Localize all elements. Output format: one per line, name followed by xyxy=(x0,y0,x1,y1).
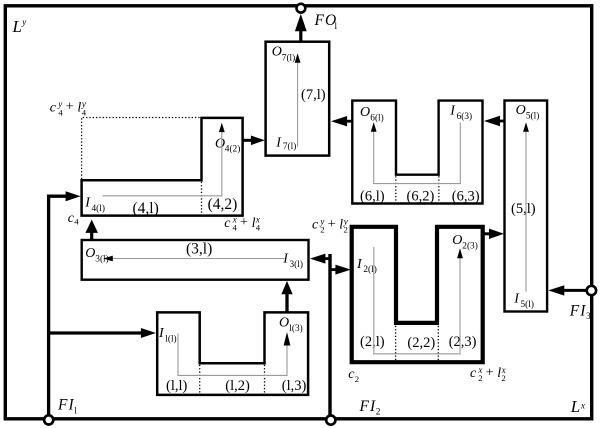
wire gray net 7 xyxy=(297,62,299,147)
arrowhead net 5 xyxy=(523,122,529,132)
svg-text:(6,3): (6,3) xyxy=(452,188,480,204)
svg-text:2: 2 xyxy=(478,373,482,383)
box (3,1) xyxy=(82,240,309,280)
label I1(1) xyxy=(158,326,177,344)
svg-text:4: 4 xyxy=(74,217,79,227)
label FO1 xyxy=(314,12,338,32)
wire arrow 6 to 7 xyxy=(347,120,353,123)
svg-text:(l,3): (l,3) xyxy=(282,378,307,394)
svg-text:(7,l): (7,l) xyxy=(301,87,326,103)
wire gray net 6 xyxy=(374,123,461,184)
node FI3 xyxy=(587,286,596,295)
module 6 U-shape outline xyxy=(352,101,482,204)
arrowhead net 4 xyxy=(219,123,225,133)
svg-text:2: 2 xyxy=(344,225,348,235)
svg-text:4: 4 xyxy=(256,223,261,233)
svg-text:+: + xyxy=(66,100,74,115)
svg-text:(l,l): (l,l) xyxy=(166,378,188,394)
wire gray net 5 xyxy=(525,132,527,292)
svg-text:c: c xyxy=(312,218,319,233)
svg-text:5(l): 5(l) xyxy=(526,110,539,121)
arrowhead net 1 xyxy=(284,332,291,346)
svg-text:4: 4 xyxy=(58,107,63,117)
svg-text:(4,2): (4,2) xyxy=(208,196,238,213)
svg-text:+: + xyxy=(486,366,494,381)
svg-text:4(2): 4(2) xyxy=(225,143,241,154)
svg-text:c: c xyxy=(50,100,57,115)
svg-text:(4,l): (4,l) xyxy=(133,200,159,217)
svg-text:2: 2 xyxy=(501,373,505,383)
wire arrow 4 to 7 xyxy=(243,139,252,142)
label I7(1) xyxy=(275,135,296,152)
svg-text:2: 2 xyxy=(376,408,381,418)
label Ly xyxy=(12,17,27,36)
svg-text:5(l): 5(l) xyxy=(521,299,534,310)
svg-text:6(l): 6(l) xyxy=(370,113,383,124)
label O1(3) xyxy=(279,316,303,334)
label c4x+l4x xyxy=(224,215,260,233)
wire gray net 2 xyxy=(374,247,460,354)
wire arrow 1 to 3 xyxy=(285,294,288,313)
svg-text:O: O xyxy=(516,103,526,118)
svg-text:4: 4 xyxy=(233,223,238,233)
dotted divider 1a xyxy=(199,365,201,394)
label FI3 xyxy=(569,302,591,322)
wire gray net 4 xyxy=(103,132,222,196)
svg-text:(3,l): (3,l) xyxy=(186,241,212,258)
wire FI1 riser and branch to 4 xyxy=(49,196,66,415)
node FI2 xyxy=(326,416,335,425)
svg-text:l(l): l(l) xyxy=(165,334,176,345)
svg-text:O: O xyxy=(85,246,95,261)
svg-text:O: O xyxy=(215,137,225,152)
label c4y+l4y xyxy=(50,99,87,117)
svg-text:+: + xyxy=(240,215,248,230)
label c4 xyxy=(68,211,80,227)
wire gray net 1 xyxy=(178,334,287,376)
arrowhead net 3 xyxy=(103,256,113,262)
svg-text:7(l): 7(l) xyxy=(282,52,295,63)
wire arrow FI2 to 2 xyxy=(332,268,337,271)
svg-text:3: 3 xyxy=(586,312,591,322)
label O4(2) xyxy=(215,137,240,155)
svg-text:2: 2 xyxy=(355,374,359,384)
label I3(1) xyxy=(282,252,303,270)
module 2 U-shape outline (bold) xyxy=(352,227,483,362)
label Lx xyxy=(570,397,585,416)
svg-text:l: l xyxy=(74,407,77,417)
svg-text:4: 4 xyxy=(82,107,87,117)
arrowhead net 6 xyxy=(371,122,377,132)
label O3(1) xyxy=(85,246,109,264)
svg-text:c: c xyxy=(470,366,477,381)
wire arrow 2 to 5 xyxy=(483,232,490,235)
svg-text:l(3): l(3) xyxy=(289,323,302,334)
dotted divider 2a xyxy=(395,326,397,360)
label O2(3) xyxy=(452,233,478,251)
label c2x+l2x xyxy=(470,365,506,383)
label O6(1) xyxy=(360,105,384,123)
wire arrow FI3 to 5 xyxy=(563,289,587,292)
label O7(1) xyxy=(272,44,295,63)
arrowhead net 7 xyxy=(295,53,301,63)
svg-text:(6,2): (6,2) xyxy=(407,188,435,204)
svg-text:c: c xyxy=(224,216,231,231)
svg-text:(2,l): (2,l) xyxy=(360,334,385,350)
node FO1 xyxy=(297,4,306,13)
label I4(1) xyxy=(84,196,105,214)
dotted divider 6a xyxy=(395,176,397,202)
label I2(1) xyxy=(356,257,377,275)
svg-text:O: O xyxy=(452,233,462,248)
svg-text:7(l): 7(l) xyxy=(283,141,296,152)
dotted divider 6b xyxy=(438,176,440,202)
svg-text:4(l): 4(l) xyxy=(92,203,105,214)
svg-text:FI: FI xyxy=(359,398,377,415)
svg-text:L: L xyxy=(12,17,22,36)
svg-text:y: y xyxy=(21,17,26,27)
label I5(1) xyxy=(513,292,534,310)
wire FI2 riser xyxy=(328,254,331,415)
label FI2 xyxy=(359,398,381,418)
svg-text:6(3): 6(3) xyxy=(457,111,473,122)
label O5(1) xyxy=(516,103,540,121)
wire FO1 arrow xyxy=(299,31,302,42)
svg-text:FI: FI xyxy=(57,397,75,414)
wire gray net 3 xyxy=(113,258,285,260)
label FI1 xyxy=(57,397,77,417)
box (5,1) xyxy=(505,101,548,312)
module 1 U-shape outline xyxy=(157,312,308,395)
svg-text:2(l): 2(l) xyxy=(363,264,376,275)
svg-text:l: l xyxy=(335,22,338,32)
dotted divider 4 xyxy=(201,182,203,215)
wire arrow 5 to 6 xyxy=(499,120,505,123)
svg-text:x: x xyxy=(580,400,585,410)
dotted box module 4 xyxy=(82,118,201,180)
svg-text:3(l): 3(l) xyxy=(290,259,303,270)
dotted divider 2b xyxy=(437,326,439,360)
svg-text:+: + xyxy=(328,217,336,232)
svg-text:(l,2): (l,2) xyxy=(225,378,250,394)
svg-text:FI: FI xyxy=(569,302,587,319)
svg-text:O: O xyxy=(279,316,289,331)
svg-text:2: 2 xyxy=(320,225,324,235)
svg-text:O: O xyxy=(360,105,370,120)
label c2y+l2y xyxy=(312,216,348,234)
wire arrow FI2 to 3 xyxy=(324,257,329,260)
svg-text:2(3): 2(3) xyxy=(462,240,478,251)
svg-text:(2,3): (2,3) xyxy=(449,334,477,350)
svg-text:(5,l): (5,l) xyxy=(511,201,536,217)
svg-text:(2,2): (2,2) xyxy=(407,335,435,351)
wire arrow 3 to 4 xyxy=(90,232,93,240)
label c2 xyxy=(348,367,359,384)
arrowhead net 2 xyxy=(457,248,463,258)
svg-text:(6,l): (6,l) xyxy=(360,188,385,204)
wire FI1 branch to 1 xyxy=(49,331,142,334)
dotted divider 1b xyxy=(264,365,266,394)
box (7,1) xyxy=(266,42,330,156)
node FI1 xyxy=(44,415,53,424)
svg-text:O: O xyxy=(272,44,282,59)
svg-text:L: L xyxy=(570,397,580,416)
label I6(3) xyxy=(449,103,472,121)
module 4 L-shape outline xyxy=(82,118,243,216)
